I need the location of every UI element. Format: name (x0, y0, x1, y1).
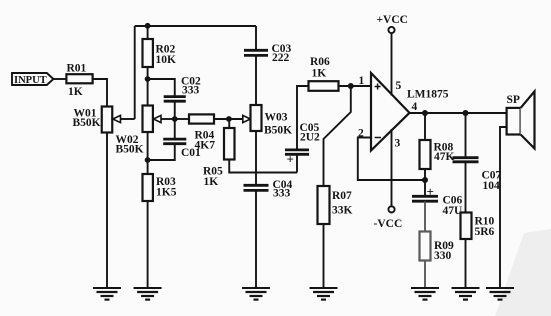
minus sign pin2 (375, 137, 381, 139)
terminal -VCC (388, 206, 394, 212)
svg-text:47K: 47K (434, 151, 455, 163)
svg-text:333: 333 (182, 85, 200, 97)
ground (SP) (486, 288, 514, 300)
svg-text:5R6: 5R6 (475, 226, 495, 238)
wire W01 bottom to ground (106, 133, 108, 289)
wire R03 to ground (147, 201, 149, 288)
junction node D (226, 116, 232, 122)
svg-text:47U: 47U (443, 205, 464, 217)
svg-text:W03: W03 (265, 112, 288, 124)
junction node B (145, 76, 151, 82)
junction node J feedback (422, 177, 428, 183)
resistor R08 (420, 140, 431, 169)
ground (W01) (93, 288, 121, 300)
wire R08 to node5 (424, 169, 426, 180)
svg-text:1K: 1K (312, 68, 327, 80)
wire C05 bottom (296, 155, 298, 173)
wire C06 to R09 (424, 201, 426, 231)
plus sign pin1 (375, 84, 381, 90)
svg-text:INPUT: INPUT (14, 75, 47, 86)
svg-text:3: 3 (395, 138, 401, 150)
svg-text:222: 222 (272, 52, 290, 64)
capacitor C06 (412, 195, 438, 198)
ground (R03) (134, 288, 162, 300)
junction node H output2 (463, 110, 469, 116)
wire R09 to ground (424, 261, 426, 289)
wire R06 to pin1 (339, 85, 372, 87)
svg-text:1: 1 (359, 75, 365, 87)
wire output to C07 (465, 113, 467, 157)
svg-text:5: 5 (396, 80, 402, 92)
resistor R03 (143, 174, 153, 201)
op-amp U1 LM1875 (371, 73, 410, 151)
svg-text:2: 2 (358, 128, 364, 140)
wire W02 bottom to R03 (147, 132, 149, 174)
resistor R02 (147, 26, 149, 39)
svg-text:B50K: B50K (264, 125, 292, 137)
junction node A (145, 23, 151, 29)
wire SP bottom to ground (500, 127, 507, 288)
svg-text:1K5: 1K5 (156, 187, 177, 199)
wire W03 bottom to C04 (255, 131, 257, 185)
svg-text:R01: R01 (67, 63, 87, 75)
svg-text:B50K: B50K (116, 144, 144, 156)
junction node E (145, 157, 151, 163)
resistor R10 (461, 213, 472, 240)
svg-text:333: 333 (273, 188, 291, 200)
svg-text:1K: 1K (68, 86, 83, 98)
svg-text:+VCC: +VCC (377, 14, 408, 26)
wire C05 top to R06 (297, 86, 309, 150)
svg-text:4: 4 (412, 101, 418, 113)
capacitor C04 (244, 184, 269, 187)
capacitor C02 (164, 95, 186, 98)
wire input to R01 (53, 78, 66, 80)
wire output (410, 112, 507, 114)
junction node C (172, 116, 178, 122)
wire W02 wiper (161, 118, 175, 120)
wire C04 to ground (255, 191, 257, 288)
wire R10 to ground (465, 239, 467, 288)
capacitor C07 (453, 156, 479, 159)
wire to R04 (175, 118, 189, 120)
resistor R07 (318, 186, 330, 224)
svg-text:+: + (287, 152, 294, 167)
wire wiper to C01 (174, 119, 176, 139)
potentiometer W01 (102, 107, 113, 133)
svg-text:SP: SP (507, 94, 520, 106)
potentiometer W03 (243, 115, 251, 122)
svg-text:4K7: 4K7 (195, 140, 216, 152)
resistor R01 (66, 74, 92, 83)
ground (R07) (310, 288, 338, 300)
svg-text:330: 330 (434, 250, 452, 262)
wire C03 to W03 top (255, 56, 257, 105)
capacitor C01 (163, 138, 186, 141)
capacitor C05 (285, 148, 309, 151)
resistor R04 (189, 114, 214, 123)
svg-text:-VCC: -VCC (374, 218, 403, 230)
wire top bus to C03 (255, 26, 257, 50)
terminal +VCC (388, 27, 394, 33)
junction node G output (422, 110, 428, 116)
wire pin2 feedback (358, 138, 425, 181)
wire C02 to wiper line (174, 101, 176, 119)
wire R01 to W01 top (93, 79, 107, 107)
ground (R10) (452, 288, 480, 300)
wire top bus (135, 25, 256, 27)
svg-text:+: + (427, 184, 434, 199)
wire C07 to R10 (465, 162, 467, 213)
svg-text:1K: 1K (204, 176, 219, 188)
ground (R09) (411, 288, 439, 300)
wire R04 to node4 (214, 118, 243, 120)
wire R07 to ground (323, 224, 325, 288)
wire node2 to C02 (148, 79, 175, 96)
wire R05 bottom rail (229, 160, 297, 173)
speaker SP (507, 108, 521, 135)
svg-text:R06: R06 (310, 56, 330, 68)
svg-text:104: 104 (483, 180, 501, 192)
wire output to R08 (424, 113, 426, 140)
junction node F pin1 (348, 83, 354, 89)
resistor R05 (228, 119, 230, 128)
svg-text:R07: R07 (332, 190, 352, 202)
wire C01 to node3 (148, 144, 175, 160)
wire W01 wiper (121, 118, 135, 120)
wire R02 bottom (147, 67, 149, 106)
input terminal INPUT (12, 73, 53, 85)
potentiometer W02 (143, 106, 153, 133)
svg-text:LM1875: LM1875 (407, 89, 449, 101)
svg-text:33K: 33K (332, 205, 353, 217)
capacitor C03 (244, 49, 268, 52)
svg-text:10K: 10K (156, 54, 177, 66)
svg-text:B50K: B50K (73, 117, 101, 129)
wire pin3 to -VCC (391, 129, 393, 206)
wire node5 to C06 (424, 180, 426, 196)
resistor R09 (420, 232, 431, 261)
ground (C04) (242, 288, 270, 300)
watermark corner shade (495, 229, 551, 316)
wire W01 wiper riser (134, 26, 136, 119)
resistor R06 (309, 81, 339, 91)
wire pin1 node to R07 diagonal (324, 86, 351, 186)
svg-text:2U2: 2U2 (300, 132, 320, 144)
wire pin5 (391, 33, 393, 95)
